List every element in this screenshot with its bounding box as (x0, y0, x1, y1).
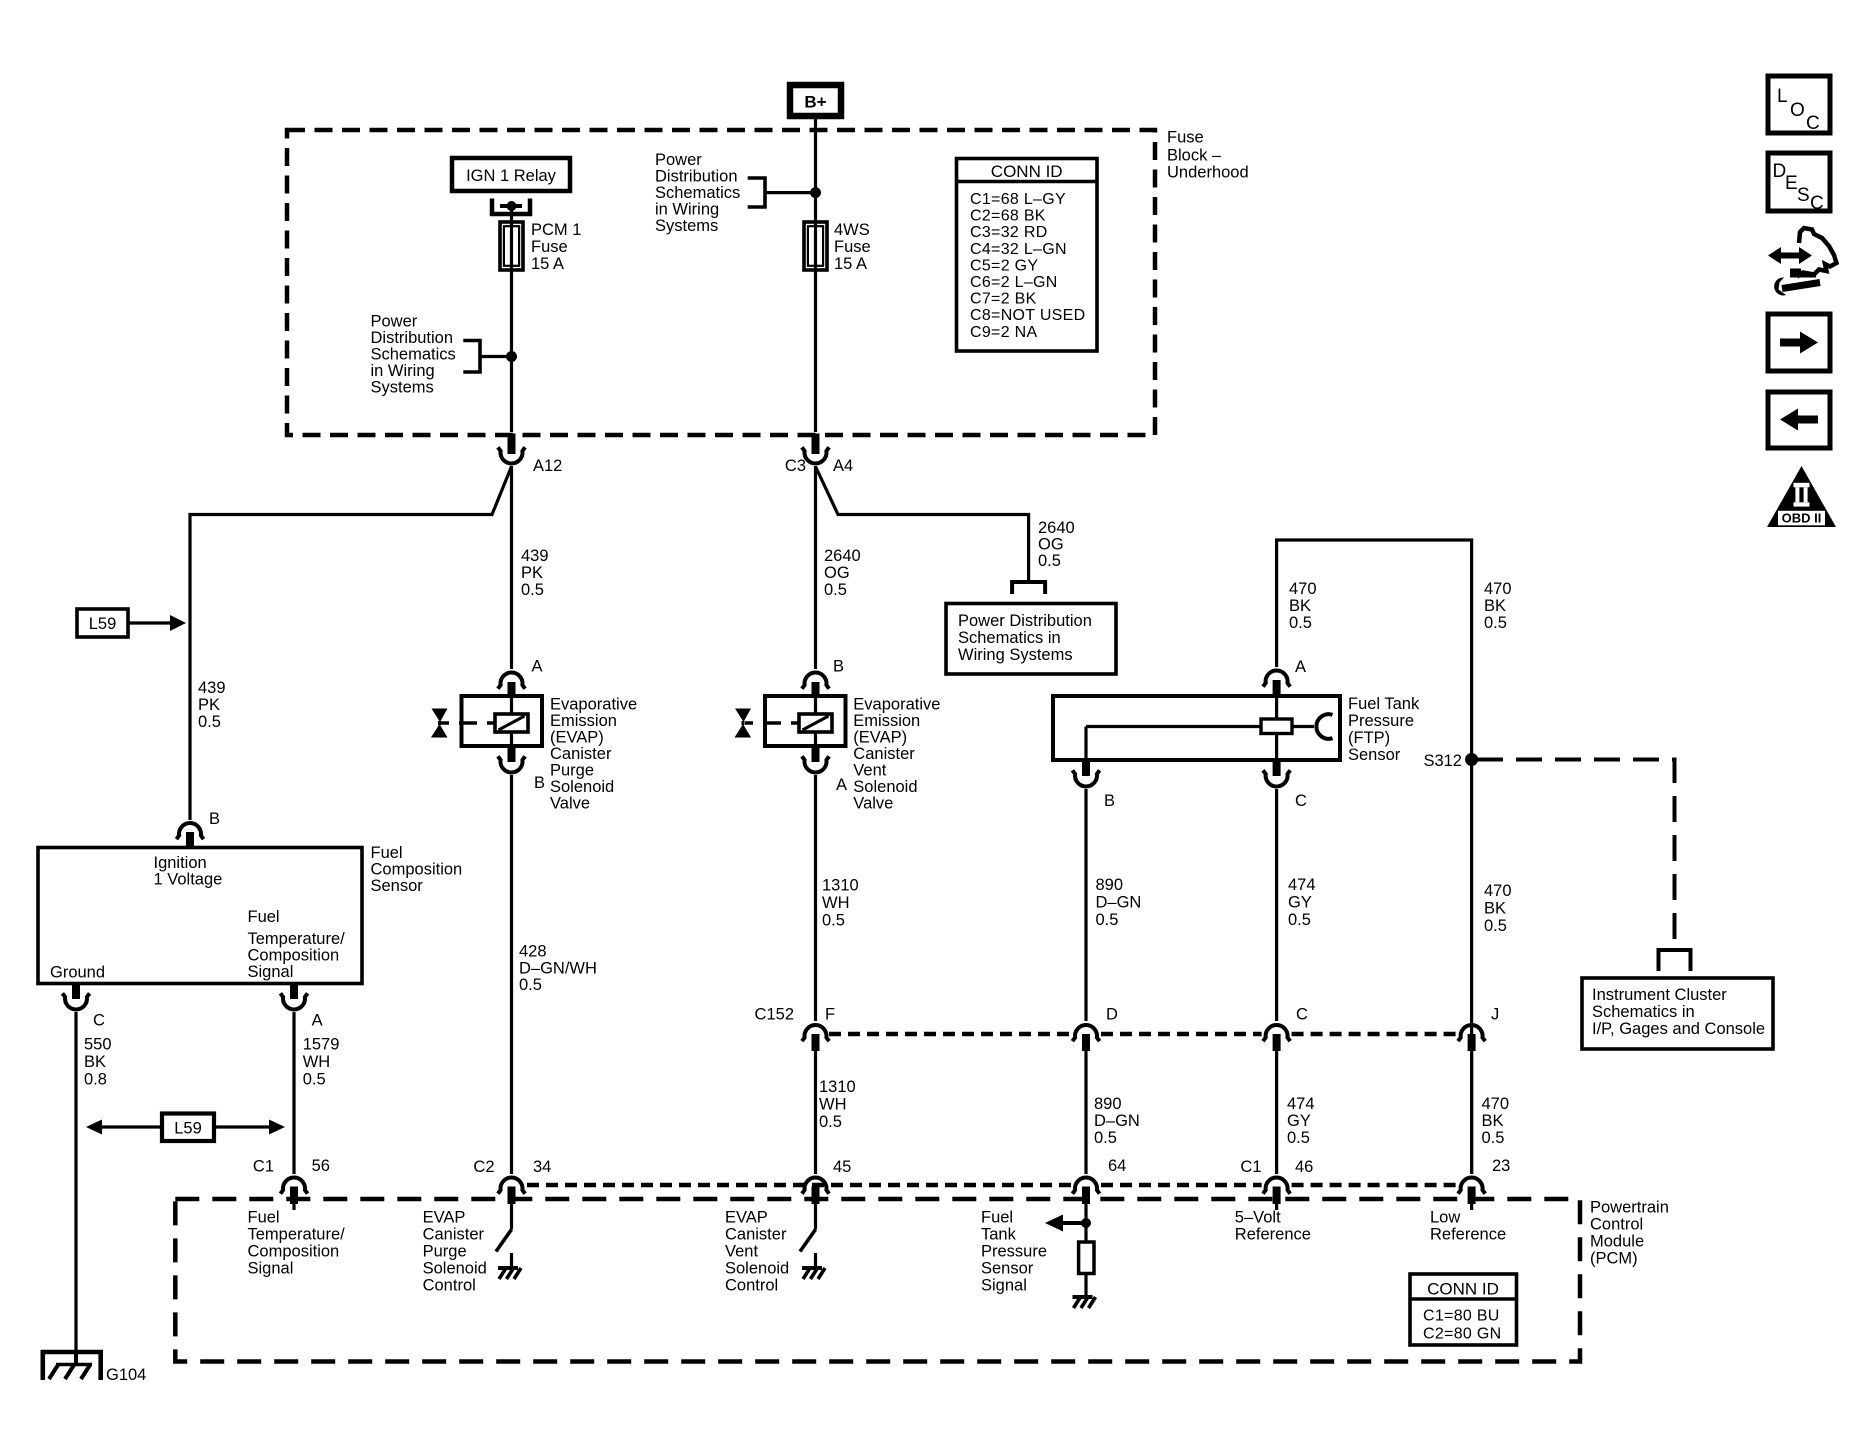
label Fuse Block Underhood (1167, 129, 1249, 182)
svg-text:B: B (1104, 792, 1115, 810)
label 1310 WH 0.5 (below C152) (819, 1078, 856, 1131)
svg-text:(PCM): (PCM) (1590, 1250, 1638, 1268)
svg-text:Evaporative: Evaporative (853, 696, 940, 714)
svg-text:0.5: 0.5 (822, 912, 845, 930)
svg-text:IGN 1 Relay: IGN 1 Relay (466, 167, 557, 185)
icon hand with wrench (repair) (1768, 228, 1837, 295)
label EVAP Canister Vent Solenoid Control (PCM) (725, 1209, 789, 1295)
connector pin B of purge solenoid (498, 746, 545, 792)
label Power Distribution Schematics in Wiring Systems (left) (371, 313, 456, 397)
wire 890 D-GN from C152 to PCM (1084, 1051, 1087, 1174)
label Fuel Composition Sensor (371, 844, 463, 895)
icon OBD II badge (1767, 466, 1836, 527)
svg-text:D: D (1106, 1006, 1118, 1024)
svg-text:439: 439 (198, 679, 226, 697)
svg-text:OG: OG (1038, 536, 1064, 554)
svg-text:64: 64 (1108, 1157, 1126, 1175)
svg-text:Fuel: Fuel (248, 1209, 280, 1227)
svg-text:WH: WH (822, 894, 850, 912)
svg-text:(EVAP): (EVAP) (550, 729, 604, 747)
label 474 GY 0.5 (below C152) (1287, 1095, 1315, 1147)
svg-text:Reference: Reference (1430, 1226, 1506, 1244)
svg-text:D–GN: D–GN (1094, 1112, 1140, 1130)
label 1579 WH 0.5 (303, 1036, 340, 1089)
svg-text:L59: L59 (174, 1120, 202, 1138)
svg-text:C: C (1295, 792, 1307, 810)
svg-text:Valve: Valve (853, 795, 893, 813)
svg-text:C: C (1296, 1006, 1308, 1024)
svg-text:0.5: 0.5 (824, 581, 847, 599)
label 890 D-GN 0.5 (below C152) (1094, 1095, 1140, 1147)
icon LOC button (1768, 76, 1830, 134)
svg-text:Solenoid: Solenoid (853, 778, 917, 796)
svg-text:56: 56 (312, 1157, 330, 1175)
svg-text:1579: 1579 (303, 1036, 340, 1054)
wire 428 D-GN/WH purge control down to PCM (510, 775, 513, 1174)
svg-text:CONN ID: CONN ID (1427, 1280, 1499, 1299)
svg-text:D–GN/WH: D–GN/WH (519, 960, 597, 978)
svg-text:B: B (534, 774, 545, 792)
svg-text:B+: B+ (804, 93, 826, 112)
off-page link pigtail to instrument cluster (1659, 950, 1691, 971)
wire 550 BK ground wire (74, 1012, 77, 1352)
wire 2640 OG from C3/A4 down to vent solenoid (814, 466, 817, 669)
svg-text:Sensor: Sensor (1348, 746, 1401, 764)
label Fuel Tank Pressure Sensor Signal (PCM) (981, 1209, 1047, 1295)
svg-text:Sensor: Sensor (981, 1260, 1034, 1278)
fuse F1: PCM 1 Fuse 15 A (500, 222, 523, 270)
label EVAP canister vent solenoid valve (853, 696, 940, 813)
node: tap to power distribution schematics (left) (463, 341, 517, 373)
svg-text:Temperature/: Temperature/ (248, 1226, 346, 1244)
svg-text:439: 439 (521, 547, 549, 565)
ground G104 (43, 1352, 147, 1384)
icon back arrow button (1768, 392, 1830, 448)
svg-text:Solenoid: Solenoid (550, 778, 614, 796)
svg-text:470: 470 (1484, 882, 1512, 900)
wire branch A12 to fuel composition sensor (190, 467, 512, 821)
connector pin A of purge solenoid (498, 658, 543, 699)
svg-text:A: A (312, 1012, 323, 1030)
svg-text:Underhood: Underhood (1167, 164, 1249, 182)
svg-text:0.5: 0.5 (1288, 911, 1311, 929)
svg-text:0.5: 0.5 (1484, 614, 1507, 632)
connector C152 terminal J (1458, 1006, 1499, 1052)
svg-text:PK: PK (521, 564, 543, 582)
PCM input circuit for FTP signal: arrow, pull resistor R1, ground (1045, 1204, 1096, 1308)
svg-text:Control: Control (1590, 1216, 1643, 1234)
label Power Distribution Schematics in Wiring Systems (right) (655, 151, 740, 235)
wire 474 GY from C152 to PCM (1275, 1051, 1278, 1174)
svg-text:in Wiring: in Wiring (655, 201, 719, 219)
label 550 BK 0.8 (84, 1036, 112, 1089)
svg-text:A4: A4 (833, 457, 853, 475)
svg-text:PCM 1: PCM 1 (531, 221, 581, 239)
svg-text:Signal: Signal (248, 963, 294, 981)
svg-text:C9=2 NA: C9=2 NA (970, 324, 1037, 341)
label Fuel Tank Pressure (FTP) Sensor (1348, 695, 1420, 764)
svg-text:470: 470 (1484, 580, 1512, 598)
label Low Reference (PCM) (1430, 1209, 1506, 1244)
connector terminal 23 of PCM (1458, 1157, 1510, 1204)
svg-text:C6=2 L–GN: C6=2 L–GN (970, 274, 1058, 291)
svg-text:890: 890 (1094, 1095, 1122, 1113)
svg-text:A: A (1295, 658, 1306, 676)
PCM row dotted line (527, 1183, 1457, 1188)
wire 23 into PCM (1470, 1204, 1473, 1210)
svg-text:Emission: Emission (550, 712, 617, 730)
svg-text:C5=2 GY: C5=2 GY (970, 257, 1038, 274)
svg-text:Schematics: Schematics (371, 346, 456, 364)
svg-text:BK: BK (1482, 1112, 1504, 1130)
svg-text:428: 428 (519, 943, 547, 961)
svg-text:0.5: 0.5 (1484, 917, 1507, 935)
svg-text:0.5: 0.5 (819, 1113, 842, 1131)
svg-text:C1=80 BU: C1=80 BU (1423, 1308, 1500, 1325)
wire 56 into PCM (292, 1204, 295, 1210)
connector pin C of fuel composition sensor (62, 984, 105, 1030)
node: tap to power distribution schematics (right) (748, 178, 821, 207)
svg-text:EVAP: EVAP (725, 1209, 768, 1227)
connector pin A of fuel composition sensor (280, 984, 322, 1030)
svg-text:0.5: 0.5 (1094, 1129, 1117, 1147)
svg-text:Power: Power (655, 151, 702, 169)
svg-text:Control: Control (725, 1277, 778, 1295)
sensor box: fuel tank pressure (FTP) sensor (1053, 696, 1340, 760)
svg-text:Reference: Reference (1235, 1226, 1311, 1244)
PCM driver switch for purge solenoid (496, 1204, 521, 1279)
label 470 BK 0.5 (right) (1484, 580, 1512, 632)
svg-text:Solenoid: Solenoid (725, 1260, 789, 1278)
connector terminal 64 of PCM (1072, 1157, 1126, 1204)
svg-text:OBD II: OBD II (1782, 511, 1822, 526)
PCM driver switch for vent solenoid (800, 1204, 825, 1279)
svg-text:Evaporative: Evaporative (550, 696, 637, 714)
svg-text:C: C (93, 1012, 105, 1030)
fuse F2: 4WS Fuse 15 A (804, 222, 827, 270)
label 5-Volt Reference (PCM) (1235, 1209, 1311, 1244)
svg-text:C152: C152 (755, 1006, 794, 1024)
label 439 PK 0.5 (sensor feed) (198, 679, 226, 731)
svg-text:Signal: Signal (248, 1260, 294, 1278)
svg-text:Fuel: Fuel (981, 1209, 1013, 1227)
svg-text:Schematics: Schematics (655, 184, 740, 202)
wire 46 into PCM (1275, 1204, 1278, 1210)
label 439 PK 0.5 (purge feed) (521, 547, 549, 599)
svg-text:Temperature/: Temperature/ (248, 930, 346, 948)
relay output contact symbol (492, 199, 530, 215)
svg-text:Fuse: Fuse (531, 238, 568, 256)
svg-text:Canister: Canister (423, 1226, 485, 1244)
svg-text:B: B (833, 658, 844, 676)
svg-text:A: A (836, 776, 847, 794)
svg-text:474: 474 (1288, 876, 1316, 894)
svg-text:C: C (1806, 113, 1820, 134)
svg-text:1310: 1310 (822, 877, 859, 895)
sensor box: fuel composition sensor (38, 848, 362, 984)
connector pin B of FTP sensor (1072, 760, 1115, 810)
svg-text:1310: 1310 (819, 1078, 856, 1096)
svg-text:Composition: Composition (371, 861, 463, 879)
PCM dashed box: powertrain control module (175, 1199, 1580, 1362)
svg-text:C1=68 L–GY: C1=68 L–GY (970, 191, 1066, 208)
svg-text:G104: G104 (106, 1366, 146, 1384)
dashed wire from S312 to instrument cluster (1477, 760, 1675, 949)
svg-text:470: 470 (1482, 1095, 1510, 1113)
svg-text:Valve: Valve (550, 795, 590, 813)
svg-text:Sensor: Sensor (371, 877, 424, 895)
svg-text:J: J (1491, 1006, 1499, 1024)
wire 890 D-GN from FTP B down to C152 (1084, 789, 1087, 1021)
connector pin B of fuel composition sensor (176, 810, 220, 849)
svg-text:C2=68 BK: C2=68 BK (970, 208, 1046, 225)
svg-text:Pressure: Pressure (1348, 712, 1414, 730)
svg-text:Purge: Purge (423, 1243, 467, 1261)
svg-text:550: 550 (84, 1036, 112, 1054)
svg-text:E: E (1785, 173, 1798, 194)
svg-text:L: L (1777, 86, 1788, 107)
wire 439 PK from A12 down to purge solenoid (510, 466, 513, 669)
svg-text:0.5: 0.5 (303, 1071, 326, 1089)
svg-text:Fuse: Fuse (834, 238, 871, 256)
wire relay to fuse (510, 208, 513, 432)
svg-text:C2=80 GN: C2=80 GN (1423, 1326, 1501, 1343)
connector C1 terminal 56 of PCM (253, 1157, 330, 1204)
connector pin A of vent solenoid (802, 746, 847, 794)
svg-text:Purge: Purge (550, 762, 594, 780)
solenoid L1: EVAP canister purge solenoid valve (431, 696, 542, 746)
svg-text:Pressure: Pressure (981, 1243, 1047, 1261)
svg-text:BK: BK (1484, 900, 1506, 918)
off-page link pigtail to power distribution (1012, 582, 1045, 594)
wire 1310 WH from C152 to PCM (814, 1051, 817, 1174)
svg-text:45: 45 (833, 1158, 851, 1176)
svg-text:EVAP: EVAP (423, 1209, 466, 1227)
battery feed B+ terminal (790, 85, 841, 116)
label Fuel Temperature/Composition Signal (PCM) (248, 1209, 346, 1278)
svg-text:0.5: 0.5 (519, 976, 542, 994)
svg-text:S312: S312 (1423, 752, 1462, 770)
svg-text:PK: PK (198, 696, 220, 714)
svg-text:D–GN: D–GN (1096, 894, 1142, 912)
svg-text:Canister: Canister (550, 745, 612, 763)
wire 1310 WH vent control down to C152 (814, 775, 817, 1021)
wire B+ down to 4WS fuse (814, 119, 817, 432)
svg-text:Solenoid: Solenoid (423, 1260, 487, 1278)
svg-text:Vent: Vent (853, 762, 886, 780)
splice node S312 (1423, 752, 1478, 770)
box: Instrument Cluster Schematics (1582, 978, 1773, 1049)
CONN ID table (fuse block) (957, 159, 1098, 352)
svg-text:Low: Low (1430, 1209, 1460, 1227)
svg-text:Fuel Tank: Fuel Tank (1348, 695, 1420, 713)
connector A12 (fuse block output) (498, 434, 562, 476)
svg-text:0.5: 0.5 (1289, 614, 1312, 632)
svg-text:0.5: 0.5 (1287, 1129, 1310, 1147)
svg-text:Distribution: Distribution (371, 329, 454, 347)
svg-text:Control: Control (423, 1277, 476, 1295)
svg-text:5–Volt: 5–Volt (1235, 1209, 1281, 1227)
label EVAP Canister Purge Solenoid Control (PCM) (423, 1209, 487, 1295)
svg-text:15 A: 15 A (834, 255, 867, 273)
svg-text:Signal: Signal (981, 1277, 1027, 1295)
connector C152 terminal F (755, 1006, 836, 1052)
svg-text:0.5: 0.5 (1482, 1129, 1505, 1147)
svg-text:C7=2 BK: C7=2 BK (970, 291, 1037, 308)
svg-text:Fuel: Fuel (248, 908, 280, 926)
wire 474 GY from FTP C down to C152 (1275, 789, 1278, 1021)
svg-text:2640: 2640 (1038, 519, 1075, 537)
svg-text:1 Voltage: 1 Voltage (154, 871, 223, 889)
CONN ID table (PCM) (1410, 1274, 1517, 1345)
svg-text:0.5: 0.5 (1038, 552, 1061, 570)
svg-text:CONN ID: CONN ID (991, 162, 1063, 181)
label 470 BK 0.5 (below C152) (1482, 1095, 1510, 1147)
svg-text:Systems: Systems (655, 217, 718, 235)
svg-text:23: 23 (1492, 1157, 1510, 1175)
svg-text:C3=32 RD: C3=32 RD (970, 224, 1048, 241)
svg-text:C1: C1 (1240, 1158, 1261, 1176)
wire 470 BK from C152 to PCM (1470, 1051, 1473, 1174)
svg-text:GY: GY (1287, 1112, 1311, 1130)
svg-text:Schematics in: Schematics in (1592, 1003, 1695, 1021)
svg-text:S: S (1797, 185, 1810, 206)
icon next arrow button (1768, 314, 1830, 371)
svg-text:A: A (532, 658, 543, 676)
label 890 D-GN 0.5 (1096, 876, 1142, 929)
svg-text:Power: Power (371, 313, 418, 331)
svg-text:2640: 2640 (824, 547, 861, 565)
svg-text:890: 890 (1096, 876, 1124, 894)
svg-text:Power Distribution: Power Distribution (958, 612, 1092, 630)
connector C2 terminal 34 of PCM (473, 1158, 551, 1204)
inline connector C152 dotted line (829, 1032, 1457, 1037)
svg-text:C: C (1810, 193, 1824, 214)
svg-text:C8=NOT USED: C8=NOT USED (970, 307, 1085, 324)
svg-text:in Wiring: in Wiring (371, 362, 435, 380)
svg-text:470: 470 (1289, 580, 1317, 598)
label EVAP canister purge solenoid valve (550, 696, 637, 813)
svg-text:Distribution: Distribution (655, 168, 738, 186)
svg-text:Tank: Tank (981, 1226, 1017, 1244)
svg-text:Powertrain: Powertrain (1590, 1199, 1669, 1217)
relay K: IGN 1 Relay (452, 158, 570, 191)
connector pin A of FTP sensor (1263, 658, 1306, 698)
svg-text:WH: WH (819, 1096, 847, 1114)
wire 470 BK loop over FTP sensor (1277, 540, 1472, 1174)
svg-text:34: 34 (533, 1158, 551, 1176)
svg-text:C1: C1 (253, 1158, 274, 1176)
svg-text:Canister: Canister (725, 1226, 787, 1244)
label 1310 WH 0.5 (above C152) (822, 877, 859, 930)
svg-text:46: 46 (1295, 1158, 1313, 1176)
svg-text:BK: BK (1289, 597, 1311, 615)
svg-text:0.8: 0.8 (84, 1071, 107, 1089)
svg-text:Emission: Emission (853, 712, 920, 730)
icon DESC button (1768, 153, 1830, 214)
svg-text:Schematics in: Schematics in (958, 629, 1061, 647)
svg-text:(FTP): (FTP) (1348, 729, 1390, 747)
svg-text:Module: Module (1590, 1233, 1644, 1251)
svg-text:Fuse: Fuse (1167, 129, 1204, 147)
label 428 D-GN/WH 0.5 (519, 943, 597, 995)
svg-text:B: B (209, 810, 220, 828)
connector C1 terminal 46 of PCM (1240, 1158, 1313, 1204)
svg-text:Composition: Composition (248, 947, 340, 965)
svg-text:4WS: 4WS (834, 221, 870, 239)
svg-text:Composition: Composition (248, 1243, 340, 1261)
svg-text:15 A: 15 A (531, 255, 564, 273)
svg-text:Fuel: Fuel (371, 844, 403, 862)
svg-text:0.5: 0.5 (521, 581, 544, 599)
svg-text:Instrument Cluster: Instrument Cluster (1592, 986, 1727, 1004)
svg-text:Vent: Vent (725, 1243, 758, 1261)
label 470 BK 0.5 (left) (1289, 580, 1317, 632)
svg-text:WH: WH (303, 1053, 331, 1071)
connector pin B of vent solenoid (802, 658, 844, 699)
box: Power Distribution Schematics in Wiring Systems (946, 604, 1116, 675)
wire branch to power distribution (816, 467, 1029, 581)
svg-text:C4=32 L–GN: C4=32 L–GN (970, 241, 1067, 258)
connector pin C of FTP sensor (1263, 760, 1307, 810)
svg-text:(EVAP): (EVAP) (853, 729, 907, 747)
svg-text:GY: GY (1288, 894, 1312, 912)
svg-text:0.5: 0.5 (198, 713, 221, 731)
svg-text:474: 474 (1287, 1095, 1315, 1113)
svg-text:OG: OG (824, 564, 850, 582)
svg-text:0.5: 0.5 (1096, 911, 1119, 929)
fuse block underhood dashed box (287, 130, 1155, 435)
svg-text:Wiring Systems: Wiring Systems (958, 646, 1073, 664)
svg-text:Canister: Canister (853, 745, 915, 763)
svg-text:C2: C2 (473, 1158, 494, 1176)
connector terminal 45 of PCM (802, 1158, 851, 1204)
connector C152 terminal C (1263, 1006, 1308, 1052)
svg-text:O: O (1790, 100, 1805, 121)
label 474 GY 0.5 (1288, 876, 1316, 929)
label L59 engine option (bottom, double arrow) (86, 1114, 285, 1142)
svg-text:Ground: Ground (50, 964, 105, 982)
label Powertrain Control Module (PCM) (1590, 1199, 1669, 1268)
svg-text:A12: A12 (533, 457, 562, 475)
label L59 engine option (top) (77, 609, 186, 637)
label 2640 OG 0.5 (branch) (1038, 519, 1075, 570)
svg-text:Systems: Systems (371, 379, 434, 397)
svg-text:C3: C3 (785, 457, 806, 475)
wire 1579 WH signal wire (292, 1012, 295, 1174)
label 470 BK 0.5 (below S312) (1484, 882, 1512, 935)
svg-text:Ignition: Ignition (154, 854, 207, 872)
svg-text:BK: BK (1484, 597, 1506, 615)
connector C152 terminal D (1072, 1006, 1118, 1052)
svg-text:BK: BK (84, 1053, 106, 1071)
svg-text:Block –: Block – (1167, 147, 1222, 165)
label 2640 OG 0.5 (vent wire) (824, 547, 861, 599)
svg-text:I/P, Gages and Console: I/P, Gages and Console (1592, 1020, 1765, 1038)
svg-text:L59: L59 (89, 615, 117, 633)
svg-text:F: F (825, 1006, 835, 1024)
connector C3 terminal A4 (fuse block output) (785, 434, 853, 476)
solenoid L2: EVAP canister vent solenoid valve (735, 696, 846, 746)
